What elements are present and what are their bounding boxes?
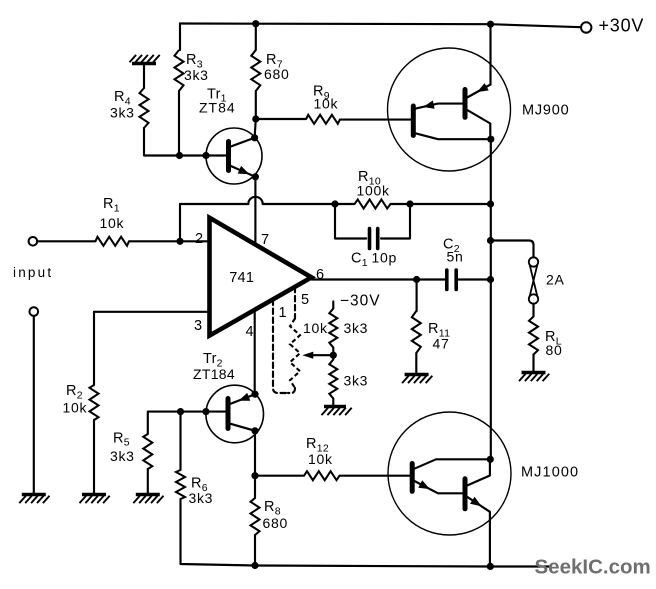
- svg-text:3k3: 3k3: [344, 320, 369, 336]
- node R12 branch: [251, 472, 258, 479]
- node divider midpoint: [330, 352, 337, 359]
- transistor Tr2 ZT184 body circle: [206, 385, 264, 443]
- MJ900 driver collector lead: [416, 133, 489, 139]
- terminal input signal: [29, 237, 38, 246]
- resistor R4 3k3: [140, 88, 149, 128]
- ground (R5): [136, 493, 160, 496]
- svg-text:3k3: 3k3: [189, 490, 214, 506]
- ground (R11): [405, 373, 429, 376]
- svg-text:7: 7: [261, 232, 270, 248]
- transistor Tr1 ZT84 body circle: [206, 128, 262, 184]
- wire output rail vertical: [490, 139, 492, 459]
- capacitor C2 5n: [445, 270, 449, 290]
- svg-text:C: C: [351, 251, 362, 267]
- wire R2 to ground: [93, 420, 95, 495]
- svg-text:3: 3: [194, 318, 203, 334]
- MJ1000 output base bar: [463, 479, 468, 509]
- svg-text:10p: 10p: [372, 250, 397, 266]
- ground (R2): [82, 493, 106, 496]
- wire top rail to R7: [255, 24, 257, 50]
- node Tr2 base lead: [202, 408, 209, 415]
- wire R12 node to R8: [254, 476, 256, 498]
- svg-text:R: R: [306, 436, 317, 452]
- resistor R12 10k: [304, 471, 340, 480]
- node bottom rail / MJ1000 emitter: [487, 563, 494, 570]
- wire R11 to ground: [415, 353, 417, 375]
- wire fuse to RL: [532, 304, 534, 317]
- svg-text:100k: 100k: [357, 183, 390, 199]
- node R10 right: [406, 200, 413, 207]
- capacitor C1 10p: [368, 229, 372, 249]
- node feedback / R10 left: [331, 200, 338, 207]
- wire lower 3k3 to ground: [332, 399, 334, 407]
- resistor 3k3 lower (bias divider): [329, 360, 337, 399]
- MJ1000 driver emitter arrow (NPN): [418, 480, 430, 489]
- wire R3 to Tr1 base node: [178, 91, 180, 156]
- resistor R10 100k: [335, 203, 355, 205]
- ground (RL): [522, 371, 546, 374]
- Tr2 emitter lead: [231, 394, 255, 404]
- Tr2 emitter arrow (PNP): [239, 393, 251, 401]
- wire pin 3 to R2: [94, 312, 210, 385]
- wire R6 to bottom rail: [181, 499, 256, 566]
- node Tr2 emitter: [251, 391, 258, 398]
- wire top rail to R3: [179, 24, 181, 51]
- resistor R5 3k3: [143, 434, 152, 469]
- wire +30V top supply rail: [180, 24, 581, 28]
- node R7/R9 junction: [252, 115, 259, 122]
- svg-text:R: R: [66, 383, 77, 399]
- transistor Tr2 base bar: [226, 399, 231, 429]
- wire input ground terminal down: [33, 316, 35, 495]
- node Tr1 base lead: [202, 152, 209, 159]
- op-amp U1 741 triangle: [210, 218, 312, 336]
- transistor U3 MJ1000 package circle: [388, 412, 511, 535]
- MJ1000 driver collector lead: [414, 459, 488, 468]
- ground (input terminal): [22, 493, 46, 496]
- wire C1 left branch: [335, 204, 366, 239]
- wire RL to ground: [532, 355, 534, 373]
- svg-text:47: 47: [433, 336, 450, 352]
- svg-text:R: R: [186, 52, 197, 68]
- svg-text:10k: 10k: [100, 215, 125, 231]
- resistor 3k3 upper (bias divider): [329, 309, 337, 348]
- wire R4 to Tr1 base wire: [144, 128, 179, 156]
- wire pot bottom dashed: [288, 388, 295, 393]
- svg-text:741: 741: [229, 270, 254, 286]
- wire Tr1 emitter to op-amp pin 7: [254, 177, 256, 245]
- svg-text:10k: 10k: [314, 96, 339, 112]
- MJ900 output collector lead: [467, 110, 490, 139]
- svg-text:10k: 10k: [63, 400, 88, 416]
- resistor R7 680: [251, 50, 260, 91]
- resistor R1 10k: [95, 237, 129, 246]
- MJ1000 output collector lead: [467, 459, 490, 485]
- node fuse branch: [487, 237, 494, 244]
- wire R7 to R9 node: [255, 91, 257, 119]
- MJ1000 output emitter lead: [467, 497, 490, 566]
- resistor RL 80 load: [529, 317, 538, 355]
- wire C2 to output rail: [458, 278, 490, 280]
- node Tr2 collector: [251, 427, 258, 434]
- MJ900 driver emitter arrow (PNP): [423, 101, 435, 109]
- wire pin 1 dashed: [273, 300, 288, 393]
- node top rail / R7 branch: [252, 20, 259, 27]
- node R5/R6 junction: [177, 408, 184, 415]
- svg-text:10k: 10k: [303, 320, 328, 336]
- wire R12 to MJ1000 base: [340, 475, 411, 477]
- resistor R6 3k3: [176, 470, 185, 499]
- wire Tr2 collector down to R12 node: [254, 431, 256, 476]
- wire input to R1: [37, 240, 95, 242]
- svg-text:5n: 5n: [447, 249, 464, 265]
- svg-text:SeekIC.com: SeekIC.com: [535, 556, 651, 579]
- node output rail / C2: [487, 276, 494, 283]
- fuse F1 2A: [529, 257, 538, 266]
- transistor Tr1 base bar: [226, 142, 231, 171]
- wire R12 left: [255, 475, 304, 477]
- wire feedback from pin2 node up and right: [180, 204, 248, 241]
- wire R9 left: [256, 118, 306, 120]
- wire R1 to pin 2 node: [129, 240, 210, 242]
- MJ1000 driver base bar: [410, 464, 415, 492]
- svg-text:−30V: −30V: [340, 293, 381, 310]
- svg-text:input: input: [13, 265, 53, 280]
- ground (top of R4): [132, 62, 156, 65]
- svg-text:4: 4: [246, 324, 255, 340]
- wire top rail to MJ900 emitter: [489, 24, 491, 84]
- wire Tr2 base node to R5: [148, 412, 181, 434]
- resistor R8 680: [251, 498, 260, 535]
- svg-text:5: 5: [301, 292, 310, 308]
- svg-text:3k3: 3k3: [110, 105, 135, 121]
- svg-text:ZT184: ZT184: [193, 366, 235, 382]
- potentiometer 10k offset null (dashed): [290, 319, 300, 389]
- svg-text:MJ1000: MJ1000: [521, 465, 579, 481]
- wire Tr2 base: [181, 411, 226, 413]
- pot wiper arrow: [312, 354, 334, 356]
- wire op-amp pin 4 down: [254, 310, 256, 394]
- svg-text:R: R: [114, 89, 125, 105]
- MJ900 output emitter lead: [467, 85, 490, 98]
- svg-text:3k3: 3k3: [344, 373, 369, 389]
- wire ground to R4: [143, 65, 145, 89]
- svg-text:680: 680: [264, 66, 289, 82]
- wire feedback right of hump to R10: [263, 203, 335, 205]
- resistor R11 47: [412, 311, 421, 353]
- svg-text:R: R: [103, 196, 114, 212]
- wire bottom rail: [255, 566, 549, 567]
- wire Tr2 base node to R6: [179, 412, 181, 470]
- terminal +30V: [581, 22, 591, 32]
- svg-text:R: R: [113, 430, 124, 446]
- MJ1000 output emitter arrow (NPN): [470, 497, 482, 507]
- svg-text:2: 2: [195, 231, 204, 247]
- wire op-amp output pin 6: [312, 278, 445, 280]
- ground (divider): [324, 405, 346, 408]
- svg-text:1: 1: [362, 257, 368, 269]
- MJ900 output emitter arrow (PNP): [477, 83, 489, 92]
- svg-text:+30V: +30V: [599, 16, 645, 36]
- wire output node to R11: [416, 280, 418, 312]
- node Tr1 collector: [251, 134, 258, 141]
- wire C1 right branch: [381, 204, 410, 239]
- wire pin 5 dashed: [294, 287, 296, 319]
- MJ900 driver emitter lead: [416, 104, 463, 109]
- node MJ1000 collectors: [487, 456, 494, 463]
- terminal input ground reference: [30, 307, 39, 316]
- wire R8 to bottom rail: [254, 535, 256, 566]
- wire upper 3k3 to mid node: [332, 348, 334, 360]
- transistor U2 MJ900 package circle: [388, 48, 511, 171]
- resistor R2 10k: [90, 385, 99, 420]
- svg-text:1: 1: [279, 305, 288, 321]
- MJ1000 driver emitter lead: [414, 481, 462, 493]
- Tr1 emitter lead: [231, 166, 256, 177]
- svg-text:1: 1: [114, 202, 120, 214]
- wire feedback crossover hump: [248, 197, 262, 204]
- Tr1 collector lead: [231, 138, 255, 147]
- node bottom rail / R8: [251, 562, 258, 569]
- wire Tr1 base: [179, 154, 226, 156]
- wire R5 to ground: [147, 469, 149, 495]
- node R3/R4 junction: [176, 152, 183, 159]
- MJ900 output base bar: [463, 90, 468, 118]
- svg-text:3k3: 3k3: [110, 448, 135, 464]
- resistor R9 10k: [306, 115, 340, 124]
- node MJ900 collectors: [487, 136, 494, 143]
- wire R9 node to Tr1 collector: [255, 119, 256, 138]
- svg-text:80: 80: [546, 342, 563, 358]
- svg-text:680: 680: [263, 515, 288, 531]
- svg-text:R: R: [264, 499, 275, 515]
- node Tr1 emitter: [252, 173, 259, 180]
- svg-text:2A: 2A: [546, 272, 565, 288]
- node output / R11: [413, 276, 420, 283]
- wire -30V to upper 3k3: [332, 302, 334, 309]
- wire R10 right to output rail: [410, 203, 491, 205]
- Tr2 collector lead: [231, 424, 255, 431]
- svg-text:3k3: 3k3: [184, 67, 209, 83]
- svg-text:Tr: Tr: [203, 351, 217, 367]
- MJ900 driver base bar: [411, 106, 416, 136]
- node pin 2 / feedback junction: [176, 238, 183, 245]
- svg-text:10k: 10k: [308, 451, 333, 467]
- node top rail / MJ900 emitter branch: [487, 21, 494, 28]
- wire R9 to MJ900 base: [340, 119, 411, 121]
- node feedback / output rail: [487, 200, 494, 207]
- svg-text:6: 6: [316, 267, 325, 283]
- resistor R3 3k3: [175, 50, 184, 91]
- wire output rail to fuse: [491, 241, 534, 258]
- svg-text:MJ900: MJ900: [522, 103, 570, 119]
- svg-text:ZT84: ZT84: [199, 100, 236, 116]
- Tr1 emitter arrow: [238, 166, 250, 174]
